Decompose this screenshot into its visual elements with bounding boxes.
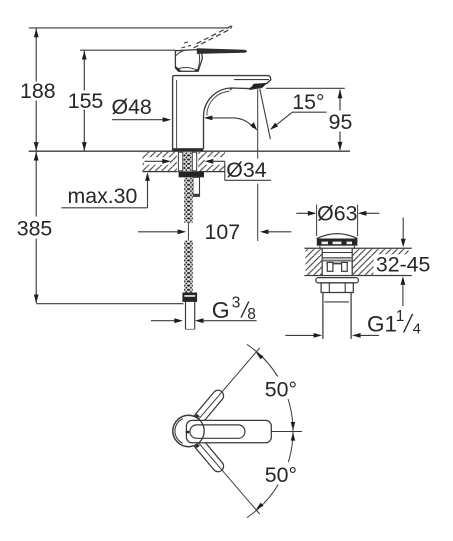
svg-text:188: 188 xyxy=(20,79,56,103)
faucet body outline xyxy=(173,76,271,151)
svg-text:Ø63: Ø63 xyxy=(317,201,357,225)
extension lines for diameter 63 xyxy=(316,205,318,236)
dimension line 95 vertical xyxy=(339,90,341,111)
svg-text:1: 1 xyxy=(396,308,405,325)
dimension Ø48 left-pointing arrow with tail xyxy=(204,116,213,121)
svg-text:107: 107 xyxy=(205,220,241,244)
drain valve body in counter xyxy=(321,248,323,275)
dimension G3/8 arrows xyxy=(151,320,175,322)
svg-text:8: 8 xyxy=(247,306,256,323)
connection tube below fitting xyxy=(185,302,187,329)
top view: center tick xyxy=(186,431,189,433)
spout tip band line xyxy=(234,79,269,81)
dimension Ø34 left arrow xyxy=(145,160,165,162)
svg-text:G1: G1 xyxy=(367,312,397,337)
extension line aerator level xyxy=(266,87,345,89)
dimension line 155 vertical xyxy=(83,51,85,91)
top view: faucet body circle mask xyxy=(173,415,204,446)
dimension 107 right part xyxy=(260,229,269,234)
lever handle (side view, solid) xyxy=(197,48,247,54)
dimension Ø34 right arrow xyxy=(205,159,214,164)
top view: arc arrow near -50 line xyxy=(256,503,264,510)
G3/8 fitting nut xyxy=(182,293,197,302)
max.30 underline and leader xyxy=(61,207,147,209)
dimension 32-45 upper xyxy=(402,218,404,240)
countertop surface line xyxy=(29,150,350,152)
raised lever position (dashed) xyxy=(194,29,231,48)
pull rod beside hose xyxy=(193,177,200,194)
svg-text:155: 155 xyxy=(68,89,104,113)
svg-text:3: 3 xyxy=(232,295,241,312)
dimension 32-45 lower xyxy=(401,276,406,285)
lever cartridge base xyxy=(175,49,202,71)
faucet base dark band xyxy=(173,148,203,151)
water stream line 15 deg xyxy=(260,89,271,139)
svg-text:32-45: 32-45 xyxy=(376,252,430,276)
top view: radial line -50 xyxy=(199,444,260,515)
vertical reference line from aerator xyxy=(257,89,259,150)
top view: arc arrows at center line xyxy=(291,422,295,430)
svg-text:G: G xyxy=(212,297,230,323)
svg-text:15°: 15° xyxy=(292,90,324,114)
mounting nut under counter xyxy=(179,172,204,178)
top view: arc arrow near +50 line xyxy=(256,352,264,359)
inner line left of body xyxy=(176,80,178,148)
flexible braided hose lower part xyxy=(184,240,193,292)
top view: faucet body circle outline xyxy=(173,415,204,446)
angle arc with arrow xyxy=(235,118,253,128)
top view: horizontal center line xyxy=(271,431,302,433)
cap neck xyxy=(319,246,321,249)
hose centerline in gap xyxy=(187,223,189,241)
dimension line 188 vertical xyxy=(35,29,37,82)
drain flange washer xyxy=(316,278,359,283)
top view: radial line +50 xyxy=(199,348,260,419)
svg-text:4: 4 xyxy=(413,322,421,338)
leader to Ø34 label xyxy=(224,161,226,180)
15 deg underline and leader arrow xyxy=(292,111,327,113)
svg-text:385: 385 xyxy=(17,217,53,241)
svg-text:50°: 50° xyxy=(265,378,297,402)
extension line bottom of hose (385 lower reference) xyxy=(36,303,183,305)
top view: lever inner detail xyxy=(190,425,245,438)
drain counter slab xyxy=(304,247,411,249)
white masks in counter (hole and dim band) xyxy=(177,152,198,172)
drain plug cap dome xyxy=(317,234,358,239)
inner underside curve of spout xyxy=(207,91,230,115)
top view: rotated lever +50 xyxy=(192,388,226,425)
extension line for 188 (top, raised lever level) xyxy=(29,27,229,29)
top view: inner circle arc xyxy=(175,419,183,444)
svg-text:max.30: max.30 xyxy=(68,184,138,208)
svg-text:95: 95 xyxy=(329,110,353,134)
top view: rotated lever -50 xyxy=(192,437,226,474)
dimension G1 1/4 arrows xyxy=(285,334,314,336)
svg-text:Ø34: Ø34 xyxy=(226,158,266,182)
flexible braided hose upper part xyxy=(184,177,193,222)
svg-text:50°: 50° xyxy=(265,463,297,487)
threaded shank through counter xyxy=(178,152,182,171)
dimension 107 left part xyxy=(138,231,178,233)
svg-text:Ø48: Ø48 xyxy=(112,95,152,119)
dimension line 385 vertical xyxy=(35,152,37,217)
top view: dark wedges at pivot xyxy=(192,414,200,420)
top view: 50 deg dimension arc xyxy=(247,344,293,517)
drain tailpiece tube xyxy=(322,293,324,339)
dimension Ø48 underline and right-pointing arrow xyxy=(112,119,164,121)
top view: white masks for 50 deg labels xyxy=(262,377,302,400)
top view: straight lever xyxy=(186,420,271,442)
counter slab hatched section xyxy=(143,152,226,172)
aerator outlet (dark) xyxy=(249,83,267,90)
extension line for 155 (lever top level) xyxy=(80,49,175,51)
dimension Ø63 arrows xyxy=(296,212,308,214)
drain locknut xyxy=(321,283,353,293)
